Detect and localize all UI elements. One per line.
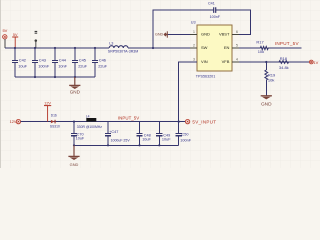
svg-text:5V: 5V	[2, 28, 7, 33]
inductor L3 SRP5030TA-3R3M	[109, 46, 128, 48]
svg-text:R17: R17	[256, 40, 264, 45]
wire R19 top stub	[265, 62, 267, 70]
port 5V_INPUT	[185, 119, 189, 123]
svg-text:10k: 10k	[268, 77, 274, 82]
wire pin1 GND	[167, 34, 197, 36]
pin 3 stub (VIN)	[190, 61, 197, 63]
svg-text:U3: U3	[191, 21, 196, 25]
svg-text:10k: 10k	[258, 49, 264, 54]
test point TP (dark marks)	[35, 31, 38, 48]
capacitor C70	[71, 122, 77, 146]
port 5V (input, top-left)	[3, 35, 7, 39]
svg-text:R18: R18	[280, 56, 288, 61]
svg-text:12V: 12V	[44, 101, 51, 105]
capacitor C47	[105, 122, 111, 146]
svg-text:12V: 12V	[10, 119, 17, 124]
junction top rail x=15	[14, 47, 16, 49]
ic U3 body	[197, 25, 232, 71]
svg-text:22uF: 22uF	[78, 63, 87, 68]
svg-text:22uF: 22uF	[98, 63, 107, 68]
ground (R19)	[261, 96, 272, 108]
capacitor C45	[72, 48, 78, 77]
junction top rail x=95	[94, 47, 96, 49]
svg-text:EN: EN	[224, 45, 230, 50]
power flag 5V	[12, 33, 18, 48]
wire 12V rail	[21, 121, 179, 123]
ground (top cap bank)	[69, 77, 80, 94]
svg-text:INPUT_5V: INPUT_5V	[118, 116, 139, 121]
wire R17 to net label	[268, 47, 301, 49]
svg-text:VBST: VBST	[219, 32, 230, 37]
junction SW/bootstrap	[152, 47, 154, 49]
resistor R17	[260, 47, 268, 50]
svg-text:100nF: 100nF	[210, 15, 221, 19]
pin 5 stub (EN)	[232, 47, 239, 49]
svg-text:5: 5	[236, 43, 238, 47]
power flag 12V	[44, 101, 51, 121]
pin 2 stub (SW)	[190, 47, 197, 49]
wire R19 bottom stub	[265, 80, 267, 96]
junction bank bottom x=35	[34, 76, 36, 78]
junction top rail x=55	[54, 47, 56, 49]
svg-text:GND: GND	[70, 162, 79, 167]
power port GND (pin1 flag)	[164, 31, 168, 37]
wire cap-bank bottom rail	[15, 76, 95, 78]
wire bottom gnd rail	[74, 144, 179, 146]
svg-text:GND: GND	[261, 102, 272, 108]
wire EN to R17	[239, 47, 260, 49]
svg-text:100nF: 100nF	[38, 63, 50, 68]
svg-text:GND: GND	[155, 32, 164, 36]
svg-text:C41: C41	[208, 2, 215, 6]
svg-text:4: 4	[236, 57, 238, 61]
capacitor C48	[136, 122, 142, 146]
svg-text:C45: C45	[79, 58, 86, 63]
svg-text:1000uF 25V: 1000uF 25V	[111, 138, 131, 142]
wire to port 5V_INPUT	[179, 121, 186, 123]
junction gnd rail x=108	[107, 144, 109, 146]
svg-text:C50: C50	[182, 132, 189, 136]
svg-text:+C47: +C47	[109, 130, 118, 134]
capacitor C42	[12, 48, 18, 77]
resistor R19	[265, 70, 268, 80]
resistor R18	[279, 61, 289, 64]
junction gnd rail x=159.3	[158, 144, 160, 146]
junction bank bottom x=75	[74, 76, 76, 78]
capacitor C41	[214, 7, 216, 13]
pin 4 stub (VFB)	[232, 61, 239, 63]
svg-text:C44: C44	[59, 58, 67, 63]
svg-text:10uF: 10uF	[18, 63, 27, 68]
ferrite bead L4	[86, 118, 96, 122]
junction C70	[73, 121, 75, 123]
svg-text:3: 3	[193, 57, 195, 61]
capacitor C49	[156, 122, 162, 146]
wire port-5V stub	[4, 39, 6, 48]
junction gnd rail x=139.5	[138, 144, 140, 146]
wire VFB row	[239, 61, 309, 63]
svg-text:34.8k: 34.8k	[279, 65, 289, 70]
svg-text:2: 2	[193, 43, 195, 47]
pin 1 stub (GND)	[190, 34, 197, 36]
wire bootstrap right	[216, 10, 251, 34]
svg-text:6: 6	[236, 30, 238, 34]
svg-text:10uF: 10uF	[142, 138, 151, 142]
svg-text:5V: 5V	[13, 33, 18, 37]
capacitor C46	[92, 48, 98, 77]
svg-text:5V_INPUT: 5V_INPUT	[192, 120, 216, 125]
junction top rail x=35	[34, 47, 36, 49]
svg-text:1: 1	[193, 30, 195, 34]
svg-text:L4: L4	[86, 114, 90, 118]
svg-text:SS310: SS310	[50, 125, 60, 129]
svg-text:330R @100MHz: 330R @100MHz	[77, 125, 102, 129]
junction bank bottom x=55	[54, 76, 56, 78]
svg-text:100nF: 100nF	[180, 138, 191, 142]
svg-text:10uF: 10uF	[162, 138, 171, 142]
svg-text:1V: 1V	[313, 60, 318, 65]
capacitor C43	[32, 48, 38, 77]
svg-text:GND: GND	[70, 89, 81, 94]
junction VIN drop	[178, 121, 180, 123]
svg-text:C46: C46	[99, 58, 106, 63]
svg-text:VFB: VFB	[222, 59, 230, 64]
svg-text:INPUT_5V: INPUT_5V	[275, 41, 300, 46]
port 1V	[309, 60, 313, 64]
junction top rail x=75	[74, 47, 76, 49]
svg-text:VIN: VIN	[201, 59, 208, 64]
capacitor C50	[176, 122, 182, 146]
svg-text:SW: SW	[201, 45, 208, 50]
svg-text:C43: C43	[39, 58, 46, 63]
junction VFB/R19	[265, 61, 267, 63]
svg-text:TPS563201: TPS563201	[196, 74, 215, 78]
svg-text:GND: GND	[201, 32, 210, 37]
wire L3 to SW pin	[128, 47, 197, 49]
diode D16	[51, 120, 56, 124]
svg-text:10uF: 10uF	[76, 137, 85, 141]
capacitor C44	[52, 48, 58, 77]
pin 6 stub (VBST)	[232, 34, 239, 36]
junction gnd rail x=74	[73, 144, 75, 146]
svg-text:C42: C42	[19, 58, 26, 63]
wire 5V rail	[5, 47, 109, 49]
wire VIN drop	[179, 62, 197, 122]
svg-text:SRP5030TA-3R3M: SRP5030TA-3R3M	[108, 50, 139, 54]
svg-text:D16: D16	[51, 114, 57, 118]
wire bootstrap left vertical	[153, 10, 214, 48]
ground (bottom rail)	[68, 145, 79, 167]
svg-text:L3: L3	[109, 42, 113, 46]
port 12V	[16, 119, 20, 123]
svg-text:10nF: 10nF	[58, 63, 67, 68]
